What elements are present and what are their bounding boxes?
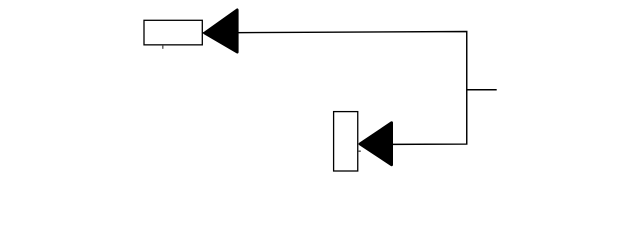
block U2 — [334, 112, 358, 171]
arrowhead into U2 — [360, 123, 392, 165]
port tick U1 — [162, 45, 164, 49]
arrowhead into U1 — [205, 10, 238, 52]
wire net1: top run, vertical drop, bottom run — [202, 32, 466, 145]
wire stub on net1 — [467, 89, 497, 91]
block U1 — [144, 20, 202, 45]
port tick U2 — [358, 150, 361, 152]
